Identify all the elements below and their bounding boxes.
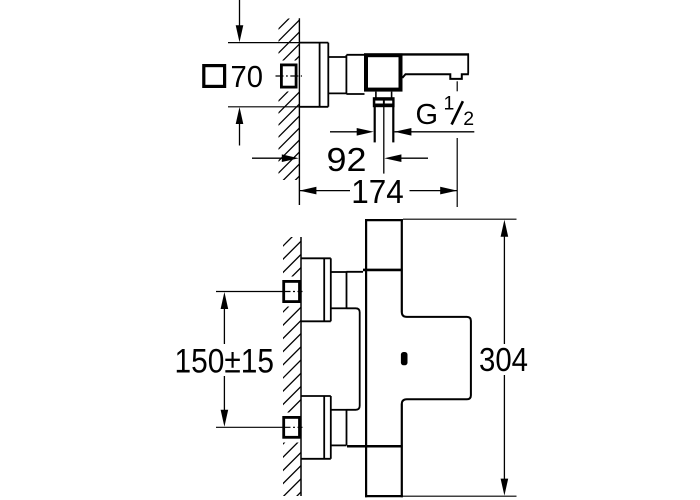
svg-text:G: G xyxy=(416,99,439,131)
svg-text:174: 174 xyxy=(351,173,404,210)
svg-text:150±15: 150±15 xyxy=(175,342,275,380)
svg-text:304: 304 xyxy=(479,341,528,378)
svg-text:1: 1 xyxy=(444,93,455,115)
svg-text:2: 2 xyxy=(463,108,474,130)
svg-text:70: 70 xyxy=(231,59,264,94)
